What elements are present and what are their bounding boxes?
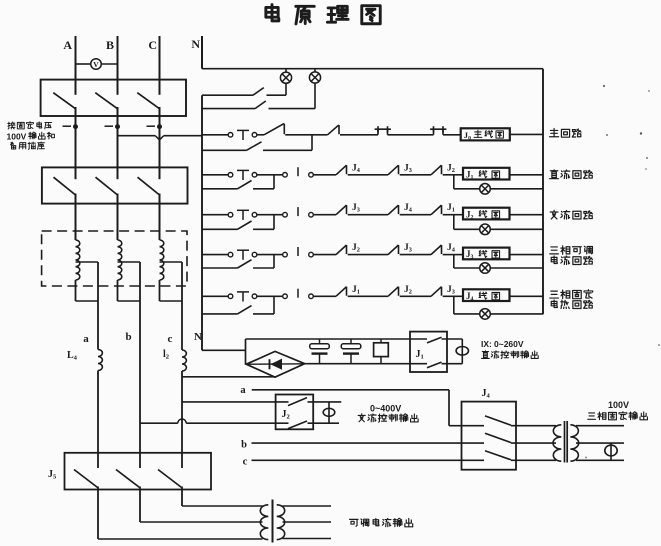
svg-text:B: B — [106, 38, 114, 52]
svg-text:a: a — [83, 333, 89, 345]
svg-text:N: N — [191, 37, 200, 51]
svg-text:IX:: IX: — [481, 339, 492, 349]
svg-text:N: N — [194, 331, 202, 343]
svg-text:c: c — [243, 457, 248, 468]
svg-text:b: b — [241, 440, 247, 451]
svg-text:C: C — [148, 38, 157, 52]
svg-text:0~400V: 0~400V — [370, 404, 401, 414]
svg-text:V: V — [93, 60, 99, 69]
svg-text:a: a — [240, 385, 246, 396]
svg-text:100V: 100V — [7, 131, 27, 141]
svg-text:c: c — [168, 333, 173, 345]
svg-text:100V: 100V — [608, 400, 629, 410]
svg-text:b: b — [125, 331, 131, 343]
svg-text:0~260V: 0~260V — [494, 339, 524, 349]
svg-text:A: A — [63, 38, 72, 52]
